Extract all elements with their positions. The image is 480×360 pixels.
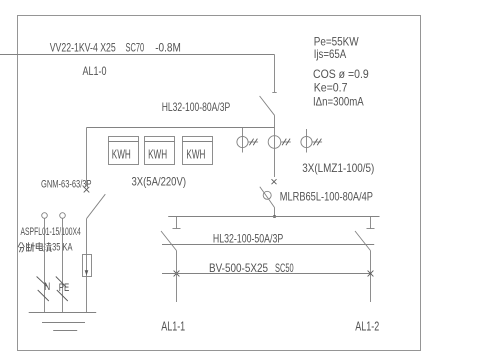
svg-text:KWH: KWH — [148, 148, 167, 162]
busbar main — [168, 216, 379, 218]
svg-text:HL32-100-50A/3P: HL32-100-50A/3P — [213, 232, 283, 246]
svg-text::35 KA: :35 KA — [50, 242, 73, 254]
svg-text:SC50: SC50 — [275, 261, 294, 275]
kWh meter 3 — [183, 137, 213, 165]
svg-text:VV22-1KV-4 X25: VV22-1KV-4 X25 — [50, 41, 116, 55]
svg-text:AL1-1: AL1-1 — [161, 320, 185, 334]
label BV-500-5X25 SC50 — [209, 261, 294, 275]
kWh meter 2 — [145, 137, 175, 165]
svg-text:Ijs=65A: Ijs=65A — [314, 47, 347, 61]
svg-text:N: N — [44, 281, 50, 293]
current transformer CT3 — [301, 129, 322, 153]
junction X AL1-2 — [368, 271, 374, 277]
svg-text:HL32-100-80A/3P: HL32-100-80A/3P — [162, 100, 231, 114]
svg-text:PE: PE — [59, 282, 70, 294]
wire feeder AL1-2 — [370, 251, 372, 302]
wire RCCB to busbar — [274, 208, 276, 217]
wire N conductor — [37, 213, 49, 313]
svg-text:COS ø =0.9: COS ø =0.9 — [313, 67, 369, 81]
svg-text:IΔn=300mA: IΔn=300mA — [313, 95, 364, 109]
wire feeder AL1-1 — [176, 251, 178, 302]
label VV22-1KV-4X25 SC70 -0.8M — [50, 41, 181, 55]
svg-text:Ke=0.7: Ke=0.7 — [314, 81, 348, 95]
surge protective device ASPFL01-15/100X4 — [83, 255, 92, 314]
svg-text:SC70: SC70 — [126, 41, 145, 55]
label breaking current 35 KA — [18, 242, 73, 254]
circuit breaker feeder AL1-1 — [161, 217, 181, 251]
svg-text:MLRB65L-100-80A/4P: MLRB65L-100-80A/4P — [280, 190, 373, 204]
circuit breaker HL32-100-80A/3P — [260, 93, 277, 116]
ground — [29, 313, 97, 331]
svg-text:AL1-0: AL1-0 — [83, 64, 107, 78]
wire feeder drop — [274, 55, 276, 93]
kWh meter 1 — [109, 137, 139, 165]
svg-text:BV-500-5X25: BV-500-5X25 — [209, 261, 268, 275]
svg-text:3X(LMZ1-100/5): 3X(LMZ1-100/5) — [302, 161, 374, 175]
wire meter branch drop — [86, 128, 88, 187]
wire meter branch horizontal — [87, 127, 275, 129]
current transformer CT1 — [237, 128, 258, 153]
svg-text:AL1-2: AL1-2 — [355, 320, 379, 334]
wire PE conductor — [56, 213, 68, 313]
junction — [273, 215, 276, 218]
busbar BV-500-5X25 SC50 — [162, 273, 372, 275]
svg-text:KWH: KWH — [112, 148, 131, 162]
wire label underline HL32-100-50A/3P — [162, 244, 374, 246]
wire breaker to CT — [274, 115, 276, 177]
circuit breaker feeder AL1-2 — [355, 217, 375, 251]
svg-text:ASPFL01-15/100X4: ASPFL01-15/100X4 — [21, 226, 81, 238]
svg-text:KWH: KWH — [186, 148, 205, 162]
wire incoming feeder — [0, 54, 275, 56]
wire switch to SPD — [86, 219, 88, 255]
svg-text:GNM-63-63/3P: GNM-63-63/3P — [41, 179, 92, 191]
current transformer CT2 — [268, 136, 291, 149]
switch GNM-63-63/3P — [84, 187, 106, 219]
junction X AL1-1 — [174, 271, 180, 277]
svg-text:3X(5A/220V): 3X(5A/220V) — [132, 175, 187, 189]
RCCB MLRB65L-100-80A/4P — [260, 179, 277, 207]
svg-text:-0.8M: -0.8M — [155, 41, 181, 55]
